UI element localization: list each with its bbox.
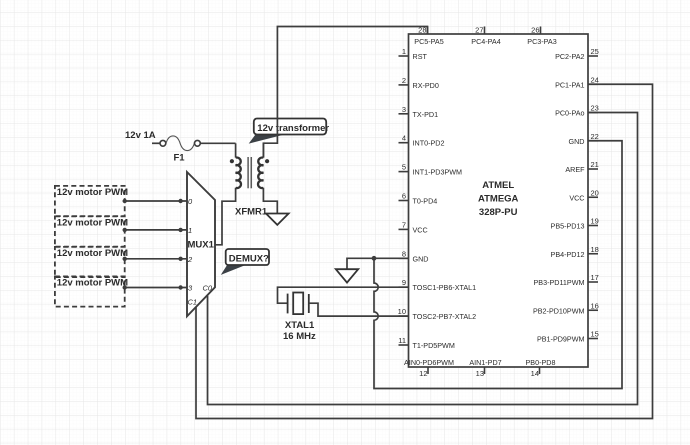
callout: 12v transformer [249,119,330,144]
transformer XFMR1 [215,143,277,245]
svg-text:VCC: VCC [413,225,428,234]
svg-text:AREF: AREF [565,165,585,174]
svg-text:GND: GND [413,254,429,263]
svg-text:15: 15 [591,330,599,339]
svg-text:AIN0-PD6PWM: AIN0-PD6PWM [404,358,454,367]
svg-text:12v 1A: 12v 1A [125,130,156,141]
svg-text:22: 22 [591,132,599,141]
pin 20 VCC [569,188,599,202]
svg-text:PB4-PD12: PB4-PD12 [551,250,585,259]
wire: MUX C0 to IC pin 23 [208,113,638,405]
svg-text:20: 20 [591,188,599,197]
svg-text:11: 11 [398,336,406,345]
svg-text:3: 3 [402,105,406,114]
svg-text:1: 1 [188,226,192,235]
svg-text:2: 2 [402,76,406,85]
svg-text:ATMEGA: ATMEGA [478,194,519,205]
svg-text:5: 5 [402,163,406,172]
pin 11 T1-PD5PWM [398,336,455,350]
core [247,157,249,188]
IC U1: ATMEL ATMEGA 328P-PU [409,34,589,367]
wire: GND vertical with hops to bottom loop to IC pin 22 [374,141,622,389]
svg-text:F1: F1 [174,153,186,164]
svg-text:PC2-PA2: PC2-PA2 [555,52,584,61]
wire: motor block 4 to MUX input 3 [123,285,188,289]
multiplexer MUX1 [187,172,215,316]
svg-text:PC5-PA5: PC5-PA5 [414,37,443,46]
svg-text:14: 14 [531,369,539,378]
pin 16 PB2-PD10PWM [533,301,599,315]
secondary winding [262,143,264,157]
pin 6 T0-PD4 [399,192,438,206]
svg-text:GND: GND [569,137,585,146]
ground under XFMR1 secondary [266,214,289,225]
svg-text:12: 12 [419,369,427,378]
junction: GND node [372,256,377,261]
svg-text:PC4-PA4: PC4-PA4 [471,37,500,46]
pin 27 PC4-PA4 [471,25,500,46]
svg-text:TOSC1-PB6-XTAL1: TOSC1-PB6-XTAL1 [413,283,477,292]
svg-text:T1-PD5PWM: T1-PD5PWM [413,341,455,350]
primary winding [235,143,237,157]
svg-text:21: 21 [591,160,599,169]
pin 14 PB0-PD8 [526,358,556,378]
svg-text:4: 4 [402,134,406,143]
motor block 3: 12v motor PWM dashed box [55,247,128,277]
svg-text:C0: C0 [203,284,213,293]
svg-text:6: 6 [402,192,406,201]
svg-text:25: 25 [591,47,599,56]
wire: MUX C1 to IC pin 24 [196,84,653,418]
svg-text:PB1-PD9PWM: PB1-PD9PWM [537,335,585,344]
fuse F1 with 12v 1A source [125,130,236,163]
svg-text:PC3-PA3: PC3-PA3 [527,37,556,46]
svg-text:2: 2 [187,255,193,264]
svg-text:12v motor PWM: 12v motor PWM [57,278,128,289]
svg-text:12v motor PWM: 12v motor PWM [57,248,128,259]
pin 25 PC2-PA2 [555,47,599,61]
svg-text:RST: RST [413,52,428,61]
svg-text:PB2-PD10PWM: PB2-PD10PWM [533,306,585,315]
pin 3 TX-PD1 [399,105,439,119]
svg-text:18: 18 [591,245,599,254]
svg-text:ATMEL: ATMEL [482,180,514,191]
svg-text:PB3-PD11PWM: PB3-PD11PWM [534,278,585,287]
motor block 4: 12v motor PWM dashed box [55,276,128,306]
motor block 2: 12v motor PWM dashed box [55,216,128,246]
pin 5 INT1-PD3PWM [399,163,463,177]
wire: crystal to IC pin 10 [309,303,409,316]
svg-text:XTAL1: XTAL1 [285,320,315,331]
svg-text:16: 16 [591,301,599,310]
svg-text:27: 27 [475,25,483,34]
svg-text:PC1-PA1: PC1-PA1 [555,80,584,89]
callout: DEMUX? [221,249,269,275]
svg-text:1: 1 [402,47,406,56]
pin 8 GND [399,249,429,263]
svg-text:PB0-PD8: PB0-PD8 [526,358,556,367]
pin 22 GND [569,132,599,146]
pin 28 PC5-PA5 [414,25,443,46]
svg-text:10: 10 [398,307,406,316]
svg-text:TX-PD1: TX-PD1 [413,110,439,119]
svg-text:PB5-PD13: PB5-PD13 [551,222,585,231]
svg-text:AIN1-PD7: AIN1-PD7 [469,358,501,367]
svg-text:7: 7 [402,220,406,229]
svg-text:16 MHz: 16 MHz [283,331,316,342]
ground symbol near pin 8 [336,269,358,282]
wire: IC pin 8 GND to ground symbol [347,258,409,269]
svg-text:26: 26 [531,25,539,34]
pin 2 RX-PD0 [399,76,439,90]
pin 4 INT0-PD2 [399,134,445,148]
svg-text:12v motor PWM: 12v motor PWM [57,187,128,198]
motor block 1: 12v motor PWM dashed box [55,186,128,216]
svg-text:XFMR1: XFMR1 [235,207,268,218]
svg-text:19: 19 [591,217,599,226]
pin 21 AREF [565,160,599,174]
pin 10 TOSC2-PB7-XTAL2 [398,307,477,321]
svg-text:13: 13 [476,369,484,378]
pin 9 TOSC1-PB6-XTAL1 [399,278,477,292]
pin 26 PC3-PA3 [527,25,556,46]
wire: XFMR1 secondary to IC pin 28 [263,27,427,158]
svg-text:24: 24 [591,75,599,84]
pin 1 RST [399,47,428,61]
pin 13 AIN1-PD7 [469,358,501,378]
pin 19 PB5-PD13 [551,217,599,231]
svg-text:MUX1: MUX1 [188,240,215,251]
pin 23 PC0-PAo [555,104,599,118]
svg-text:12v transformer: 12v transformer [257,123,329,134]
svg-text:PC0-PAo: PC0-PAo [555,109,584,118]
pin 15 PB1-PD9PWM [537,330,599,344]
svg-text:INT0-PD2: INT0-PD2 [413,139,445,148]
svg-text:C1: C1 [188,298,198,307]
svg-text:VCC: VCC [569,193,584,202]
svg-text:RX-PD0: RX-PD0 [413,81,439,90]
pin 24 PC1-PA1 [555,75,599,89]
crystal XTAL1 16 MHz [283,293,316,343]
wire: motor block 1 to MUX input 0 [123,199,188,203]
svg-text:28: 28 [418,25,426,34]
svg-text:INT1-PD3PWM: INT1-PD3PWM [413,168,463,177]
svg-text:12v motor PWM: 12v motor PWM [57,218,128,229]
svg-text:T0-PD4: T0-PD4 [413,197,438,206]
pin 18 PB4-PD12 [551,245,599,259]
wire: motor block 2 to MUX input 1 [123,228,188,232]
pin 17 PB3-PD11PWM [534,273,599,287]
svg-text:8: 8 [402,249,406,258]
svg-text:9: 9 [402,278,406,287]
wire: motor block 3 to MUX input 2 [123,257,188,261]
svg-text:17: 17 [591,273,599,282]
svg-text:23: 23 [591,104,599,113]
pin 12 AIN0-PD6PWM [404,358,454,378]
svg-text:328P-PU: 328P-PU [479,207,518,218]
pin 7 VCC [399,220,428,234]
svg-text:TOSC2-PB7-XTAL2: TOSC2-PB7-XTAL2 [413,312,477,321]
wire: IC pin 9 to crystal [278,287,409,303]
svg-text:DEMUX?: DEMUX? [229,253,269,264]
